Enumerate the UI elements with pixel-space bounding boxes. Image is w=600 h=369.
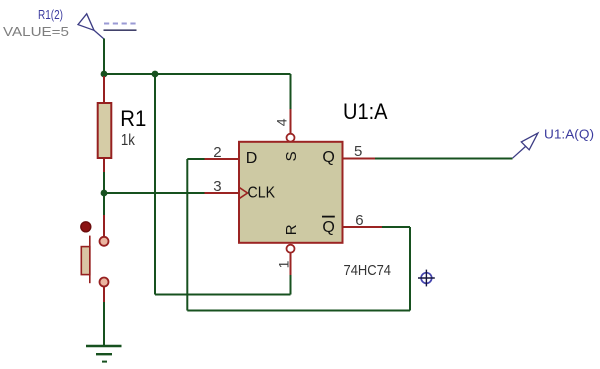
wire: feedback up (186, 159, 188, 311)
wire: junction down to button (103, 193, 105, 215)
pin 5 Q stub (343, 158, 376, 160)
wire: Q output (375, 158, 513, 160)
svg-text:R: R (283, 224, 300, 235)
wire: button to ground (103, 302, 105, 346)
op-amp U1 body (74HC74 D flip-flop) (239, 142, 343, 243)
resistor R1 (98, 76, 112, 172)
wire: CLK horizontal (104, 192, 205, 194)
pin 1 bubble (287, 245, 295, 253)
pin 4 S stub (290, 109, 292, 134)
svg-text:VALUE=5: VALUE=5 (3, 24, 69, 39)
wire: rail down to S pin (290, 74, 292, 109)
svg-text:U1:A: U1:A (343, 99, 388, 124)
wire: feedback bottom (187, 310, 410, 312)
svg-text:Q: Q (322, 219, 334, 236)
pin 6 Qbar stub (343, 226, 383, 228)
origin marker (418, 270, 435, 287)
wire: resistor to CLK junction (103, 172, 105, 193)
wire: top rail horizontal (104, 73, 291, 75)
svg-text:S: S (283, 151, 300, 161)
pin 1 R stub (290, 253, 292, 275)
svg-text:6: 6 (355, 212, 363, 229)
svg-text:Q: Q (322, 149, 334, 166)
output terminal U1:A(Q) (513, 133, 538, 158)
pushbutton (81, 215, 109, 302)
node junction at resistor top (101, 71, 108, 78)
clock triangle (239, 187, 248, 198)
svg-text:CLK: CLK (248, 185, 276, 202)
svg-text:R1(2): R1(2) (38, 7, 63, 22)
svg-text:D: D (246, 150, 258, 167)
svg-text:1k: 1k (121, 132, 135, 149)
pin 2 D stub (205, 158, 240, 160)
wire: feedback down (409, 227, 411, 311)
svg-text:5: 5 (354, 143, 362, 160)
svg-text:U1:A(Q): U1:A(Q) (544, 126, 594, 141)
power terminal R1(2) (78, 14, 137, 39)
ground (86, 346, 122, 362)
wire: Qbar feedback right (382, 226, 410, 228)
wire: terminal to top rail (103, 39, 105, 75)
svg-text:3: 3 (213, 178, 221, 195)
svg-text:1: 1 (275, 260, 291, 268)
node junction at second vertical (152, 71, 159, 78)
svg-text:74HC74: 74HC74 (344, 262, 392, 279)
pin 4 bubble (287, 134, 295, 142)
wire: feedback into D (187, 158, 204, 160)
node junction CLK (101, 190, 108, 197)
pin 3 CLK stub (205, 192, 240, 194)
wire: second vertical down (154, 74, 156, 295)
wire: up to R pin (290, 275, 292, 295)
svg-text:2: 2 (213, 144, 221, 161)
svg-text:R1: R1 (120, 106, 146, 131)
wire: bottom run to R pin (155, 294, 291, 296)
svg-text:4: 4 (273, 118, 289, 126)
